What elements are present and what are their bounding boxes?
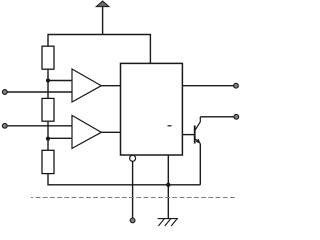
wire R2 bottom to R3 top [47,121,49,150]
wire U3 output pin to terminal T3 [182,85,233,87]
input terminal T1 [2,90,7,95]
junction node A dot [46,78,50,82]
chassis dashed line [31,197,236,199]
transistor Q1 collector [195,117,201,131]
junction on bottom rail [166,183,170,187]
wire open pin down to terminal T5 [132,161,134,218]
wire Q1 emitter to bottom rail [199,144,201,185]
transistor Q1 emitter arrowhead [196,139,200,143]
wire top supply rail [48,35,150,64]
IC U3 [121,63,183,155]
open-collector pin circle on U3 [130,155,136,161]
resistor R3 [42,150,54,173]
wire R1 bottom to R2 top [47,69,49,98]
wire R3 bottom to bottom rail [48,174,200,185]
op-amp U2 [72,115,101,148]
wire VCC arrow stem [102,7,104,35]
terminal T5 [130,218,135,223]
input terminal T2 [2,123,7,128]
wire U2 output to U3 [101,131,120,133]
ground symbol [158,219,178,226]
wire Q1 collector to terminal T4 [200,116,234,118]
wire node B to U2 inverting input [48,137,72,139]
power supply arrow VCC [96,1,109,7]
wire U3 ground pin down to ground [167,155,169,219]
output terminal T4 [234,114,239,119]
transistor Q1 emitter with arrow [195,138,201,143]
transistor Q1 base bar [194,126,196,144]
wire U1 output to U3 [101,85,120,87]
minus sign label inside U3 [168,125,172,127]
wire node A to U1 non-inverting input [48,80,72,82]
output terminal T3 [234,83,239,88]
wire U3 to Q1 base [182,134,194,136]
resistor R2 [42,98,54,121]
wire terminal T2 to U2 non-inverting input [7,125,72,127]
resistor R1 [42,46,54,69]
junction node B dot [46,137,50,141]
op-amp U1 [72,69,101,102]
wire terminal T1 to U1 inverting input [7,91,72,93]
